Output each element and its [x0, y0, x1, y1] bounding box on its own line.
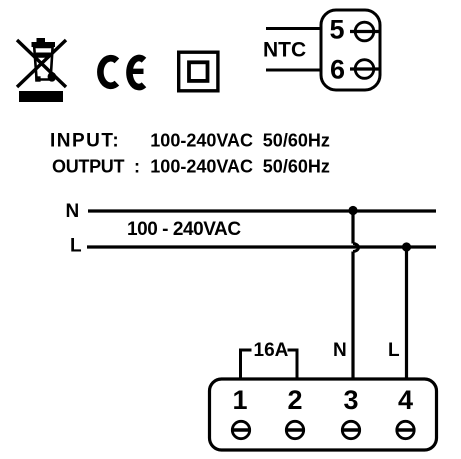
svg-text:50/60Hz: 50/60Hz — [263, 157, 330, 177]
svg-text:L: L — [388, 340, 400, 361]
svg-text:NTC: NTC — [263, 39, 306, 62]
svg-text:100 - 240VAC: 100 - 240VAC — [127, 219, 241, 240]
svg-text:3: 3 — [343, 385, 358, 415]
svg-text:1: 1 — [232, 385, 247, 415]
svg-text:2: 2 — [287, 385, 302, 415]
svg-text:16A: 16A — [254, 340, 289, 361]
svg-text:5: 5 — [329, 15, 344, 45]
svg-text:INPUT:: INPUT: — [50, 131, 120, 152]
svg-text:N: N — [333, 340, 347, 361]
svg-text::: : — [134, 157, 140, 177]
svg-text:N: N — [66, 201, 80, 222]
svg-text:100-240VAC: 100-240VAC — [150, 157, 253, 177]
svg-text:L: L — [70, 236, 82, 257]
svg-text:4: 4 — [398, 385, 413, 415]
svg-text:OUTPUT: OUTPUT — [52, 157, 125, 177]
svg-text:50/60Hz: 50/60Hz — [263, 131, 330, 151]
svg-text:6: 6 — [330, 55, 345, 85]
svg-text:100-240VAC: 100-240VAC — [150, 131, 253, 151]
